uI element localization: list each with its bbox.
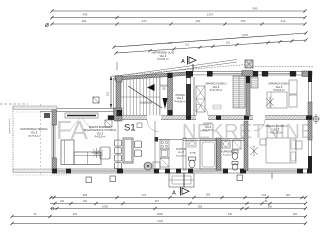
svg-text:P=9,75 m²: P=9,75 m² (203, 129, 214, 132)
svg-text:HODNIK: HODNIK (203, 123, 213, 126)
svg-text:VEL.Ž: VEL.Ž (177, 97, 184, 100)
svg-text:2066: 2066 (157, 212, 163, 216)
svg-text:190: 190 (83, 200, 88, 203)
svg-text:P=4,60 m²: P=4,60 m² (223, 154, 233, 157)
svg-text:590: 590 (268, 206, 273, 209)
svg-text:10x18,6/25: 10x18,6/25 (140, 102, 153, 105)
svg-text:P=4,60 m²: P=4,60 m² (175, 100, 186, 103)
svg-text:281: 281 (293, 213, 298, 216)
svg-text:1005: 1005 (102, 205, 108, 209)
svg-text:390: 390 (196, 19, 201, 23)
svg-text:OSTAVA: OSTAVA (175, 94, 185, 97)
svg-text:P=5,40 m²: P=5,40 m² (176, 154, 186, 157)
svg-text:640: 640 (228, 213, 233, 216)
svg-text:243: 243 (262, 193, 267, 197)
svg-text:P=77,5 m²: P=77,5 m² (28, 135, 39, 138)
svg-text:NATKRIVENA TERASA: NATKRIVENA TERASA (20, 127, 48, 131)
svg-text:A: A (181, 59, 185, 65)
svg-text:150: 150 (106, 91, 110, 96)
svg-text:P=23,5 m²: P=23,5 m² (95, 136, 106, 139)
svg-text:265: 265 (167, 41, 172, 45)
svg-text:250: 250 (241, 19, 246, 23)
svg-text:S1: S1 (124, 123, 136, 134)
svg-text:P=12,35 m²: P=12,35 m² (270, 132, 283, 135)
svg-text:VEL.Ž: VEL.Ž (178, 151, 185, 154)
svg-text:1050: 1050 (242, 33, 249, 37)
svg-text:P=3,50 m²: P=3,50 m² (157, 58, 168, 61)
svg-text:KUPA.: KUPA. (190, 152, 197, 155)
svg-text:370: 370 (142, 19, 147, 23)
svg-text:667: 667 (155, 200, 160, 203)
svg-text:BLAGOVAONICA I KUHINJA: BLAGOVAONICA I KUHINJA (84, 129, 117, 132)
svg-text:190: 190 (60, 200, 65, 203)
svg-text:VEL.Ž: VEL.Ž (205, 126, 212, 129)
svg-text:A: A (172, 191, 176, 197)
svg-text:283: 283 (206, 193, 211, 197)
svg-text:374: 374 (142, 193, 147, 197)
svg-text:281: 281 (286, 193, 291, 197)
svg-text:590: 590 (253, 7, 258, 11)
svg-text:P=17,35 m²: P=17,35 m² (210, 89, 223, 92)
svg-text:490: 490 (83, 13, 88, 17)
svg-text:490: 490 (82, 19, 87, 23)
svg-text:granica parcele: granica parcele (8, 118, 11, 134)
svg-text:1370: 1370 (207, 13, 214, 17)
svg-text:595: 595 (198, 205, 203, 209)
svg-text:P=9,20 m²: P=9,20 m² (273, 89, 284, 92)
svg-text:310: 310 (281, 19, 286, 23)
svg-text:2126: 2126 (157, 219, 163, 223)
svg-text:KUHINJA: KUHINJA (176, 148, 186, 151)
svg-text:425: 425 (73, 213, 78, 216)
svg-text:845: 845 (83, 193, 88, 197)
svg-text:8x18,6: 8x18,6 (161, 86, 169, 88)
svg-text:VEL.Ž: VEL.Ž (97, 132, 104, 135)
